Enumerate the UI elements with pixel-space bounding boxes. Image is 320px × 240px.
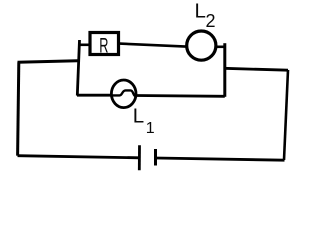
wire right junction vertical — [223, 43, 226, 97]
resistor R1 box — [90, 33, 119, 55]
wire bottom left horizontal — [18, 156, 140, 158]
svg-text:L: L — [133, 104, 144, 127]
wire bottom right horizontal — [156, 158, 285, 160]
svg-text:2: 2 — [206, 11, 216, 31]
wire stub to resistor — [79, 43, 90, 46]
svg-text:1: 1 — [146, 120, 155, 137]
battery left plate — [138, 145, 141, 170]
svg-text:L: L — [195, 0, 206, 23]
label L2 — [195, 0, 216, 31]
wire L1 branch right segment — [136, 94, 225, 98]
wire left junction vertical — [77, 40, 79, 96]
wire right rail — [284, 70, 288, 160]
battery right plate — [154, 149, 157, 166]
lamp L1 — [111, 80, 136, 108]
wire left rail — [18, 62, 19, 155]
wire junction to right rail — [224, 68, 288, 70]
wire L1 branch left segment — [77, 94, 111, 97]
lamp L2 — [187, 31, 216, 60]
svg-text:R: R — [99, 34, 108, 58]
wire resistor to lamp L2 — [120, 44, 187, 47]
wire lamp L2 to right junction — [217, 45, 226, 48]
lamp L1 filament — [111, 90, 136, 96]
label L1 — [133, 104, 155, 136]
label R — [99, 34, 108, 58]
wire top-left horizontal — [18, 61, 78, 63]
